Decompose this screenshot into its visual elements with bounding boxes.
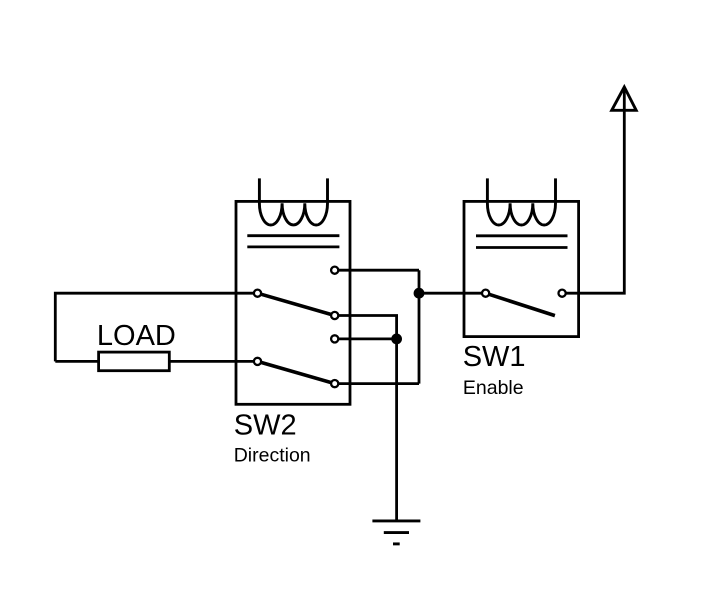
wire: SW2 contact C1 to vertical bus bbox=[335, 269, 419, 272]
wire: vertical bus C1-C4 bbox=[418, 270, 421, 383]
SW2 contact C2 pin bbox=[331, 312, 338, 319]
wire: LOAD top wire to SW2 pole1 common bbox=[55, 293, 257, 361]
SW1 common pin bbox=[482, 290, 489, 297]
SW2 pole2 arm bbox=[258, 361, 335, 383]
SW2 contact C4 pin bbox=[331, 380, 338, 387]
svg-text:SW2: SW2 bbox=[234, 410, 297, 442]
wire: down to ground bbox=[395, 339, 398, 521]
SW1 core lines bbox=[476, 234, 568, 237]
wire: LOAD bottom wire left segment bbox=[55, 360, 98, 363]
SW2 contact C1 pin bbox=[331, 267, 338, 274]
SW1 box bbox=[464, 201, 579, 336]
resistor LOAD bbox=[99, 352, 170, 371]
wire: LOAD bottom wire right segment to SW2 pole2 common bbox=[169, 360, 257, 363]
SW2 pole2 common pin bbox=[254, 358, 261, 365]
ground bbox=[372, 521, 420, 544]
relay SW2 bbox=[234, 178, 350, 466]
SW1 arm (open) bbox=[486, 293, 555, 315]
SW2 coil bbox=[259, 178, 327, 225]
supply arrow bbox=[612, 87, 637, 110]
wire: SW1 throw to supply arrow bbox=[566, 87, 624, 293]
wire: SW2 contact C3 to junction bbox=[335, 337, 397, 340]
svg-text:Enable: Enable bbox=[463, 377, 524, 399]
wire: junction to SW1 common bbox=[419, 292, 486, 295]
junction node at bus and SW1 wire bbox=[414, 288, 425, 299]
SW2 contact C3 pin bbox=[331, 335, 338, 342]
wire: SW2 contact C4 to vertical bus bbox=[335, 382, 419, 385]
wire: SW2 contact C2 over and down bbox=[335, 316, 397, 339]
junction node C2/C3/ground bbox=[391, 334, 402, 345]
relay SW1 bbox=[463, 178, 579, 398]
SW1 coil bbox=[487, 178, 555, 225]
SW2 core lines bbox=[247, 234, 339, 237]
svg-text:LOAD: LOAD bbox=[97, 320, 176, 352]
SW2 box bbox=[236, 201, 350, 404]
SW2 pole1 arm bbox=[258, 293, 335, 315]
svg-text:SW1: SW1 bbox=[463, 341, 526, 373]
svg-text:Direction: Direction bbox=[234, 444, 311, 466]
SW2 pole1 common pin bbox=[254, 290, 261, 297]
SW1 throw pin bbox=[559, 290, 566, 297]
